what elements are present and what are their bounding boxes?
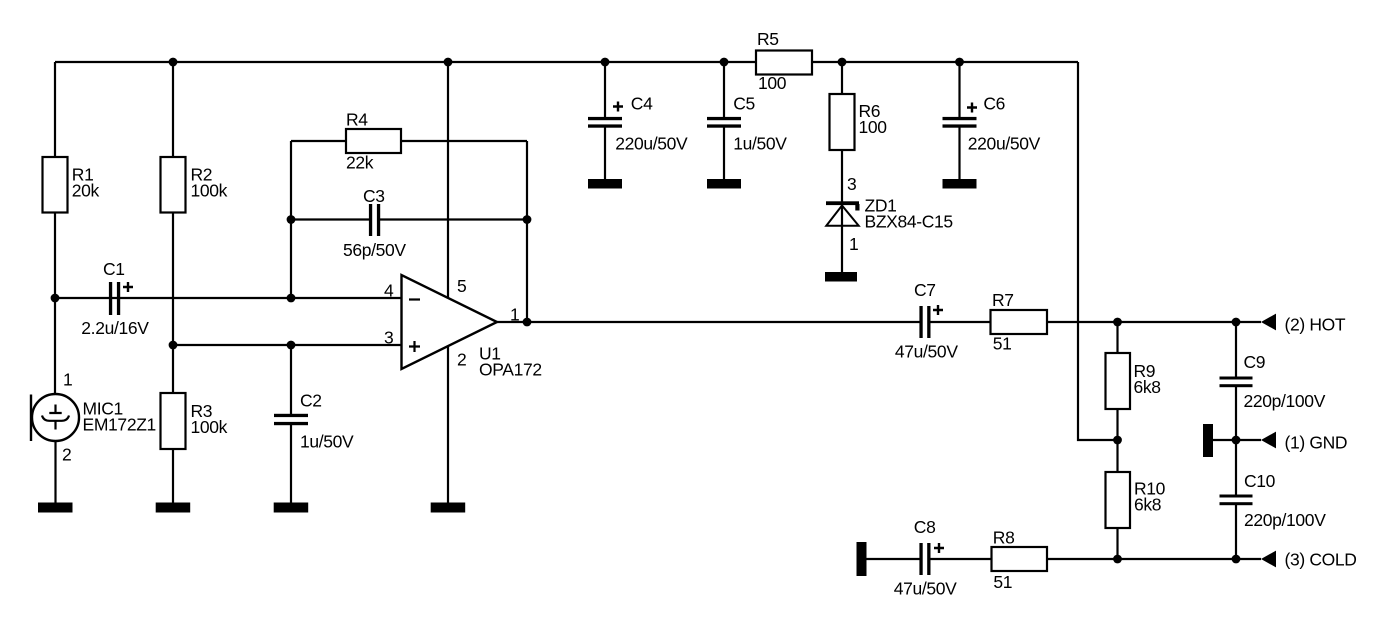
svg-text:51: 51: [993, 334, 1012, 354]
polarity mark + for C4: [613, 102, 623, 112]
resistor R10: [1106, 472, 1166, 528]
node junction COLD C10: [1232, 555, 1241, 564]
wire R10 bottom: [1116, 528, 1118, 559]
svg-text:(3) COLD: (3) COLD: [1285, 550, 1357, 570]
wire R1 bottom to node A: [54, 212, 56, 299]
polarity mark + for C7: [933, 305, 943, 315]
svg-text:6k8: 6k8: [1134, 495, 1161, 515]
svg-text:2: 2: [62, 445, 71, 465]
polarity mark + for C1: [123, 282, 133, 292]
resistor R2: [161, 157, 228, 213]
wire C2 top: [290, 345, 292, 414]
polarity mark + for C6: [967, 103, 977, 113]
wire C3 right: [380, 218, 527, 220]
node junction top rail C6: [955, 58, 964, 67]
wire C4 top: [604, 62, 606, 118]
resistor R1: [43, 157, 100, 213]
svg-text:56p/50V: 56p/50V: [343, 240, 406, 260]
ground tab C8: [857, 542, 867, 576]
svg-text:R4: R4: [346, 110, 368, 130]
wire node A to MIC1 pin1: [54, 298, 56, 394]
capacitor C4: [588, 93, 688, 153]
connector (3) COLD: [1261, 550, 1357, 570]
svg-text:C5: C5: [733, 93, 755, 113]
svg-text:3: 3: [384, 328, 393, 348]
wire C7 to R7: [931, 321, 991, 323]
node A junction R1/MIC1/C1: [51, 294, 60, 303]
wire R3 bottom to ground: [172, 449, 174, 503]
wire C8 to R8: [931, 558, 992, 560]
svg-text:47u/50V: 47u/50V: [894, 578, 957, 598]
wire R2 bottom to R3 top: [172, 212, 174, 393]
capacitor C9: [1220, 352, 1326, 411]
resistor R5: [756, 29, 812, 93]
capacitor C1: [81, 259, 149, 338]
wire feedback right column: [526, 141, 528, 322]
svg-text:R8: R8: [993, 528, 1015, 548]
wire R2 top: [172, 62, 174, 157]
svg-text:C6: C6: [983, 93, 1005, 113]
wire R6 top: [841, 62, 843, 94]
svg-text:1u/50V: 1u/50V: [300, 432, 354, 452]
wire C9 top: [1235, 322, 1237, 377]
wire R6 bottom to ZD1: [841, 150, 843, 202]
resistor R4: [346, 110, 401, 173]
ground C2: [274, 503, 309, 513]
node junction HOT R9: [1113, 318, 1122, 327]
wire U1 pin 2 drop to ground: [447, 346, 449, 503]
connector (2) HOT: [1261, 314, 1346, 335]
svg-text:6k8: 6k8: [1134, 377, 1161, 397]
wire U1 output to C7: [496, 321, 920, 323]
wire R1 top: [54, 62, 56, 157]
svg-text:1: 1: [63, 370, 72, 390]
svg-text:C4: C4: [631, 93, 653, 113]
svg-text:1: 1: [510, 305, 519, 325]
node junction C2 to non-inverting line: [287, 341, 296, 350]
node junction top rail C5: [720, 58, 729, 67]
node junction top rail U1 pin5: [444, 58, 453, 67]
wire C9 bottom to GND node: [1235, 387, 1237, 440]
node junction HOT C9: [1232, 318, 1241, 327]
svg-text:C1: C1: [103, 259, 125, 279]
ground tab GND connector: [1203, 424, 1213, 457]
svg-text:3: 3: [847, 174, 856, 194]
svg-text:220p/100V: 220p/100V: [1244, 391, 1326, 411]
ground R3: [156, 503, 191, 513]
ground ZD1: [825, 272, 857, 282]
svg-text:220p/100V: 220p/100V: [1244, 510, 1326, 530]
ground MIC1: [38, 503, 73, 513]
node junction top rail C4: [601, 58, 610, 67]
wire ZD1 anode to ground: [841, 204, 843, 273]
svg-text:22k: 22k: [346, 153, 374, 173]
node junction GND C9/C10: [1232, 436, 1241, 445]
wire R4 right: [401, 140, 527, 142]
svg-text:100: 100: [859, 117, 888, 137]
wire inverting input line (node A to pin 4): [55, 297, 402, 299]
svg-text:4: 4: [384, 281, 394, 301]
wire non-inverting input line (to pin 3): [173, 344, 402, 346]
svg-text:EM172Z1: EM172Z1: [83, 415, 156, 435]
node junction top rail R6: [838, 58, 847, 67]
resistor R8: [992, 528, 1048, 593]
svg-text:100k: 100k: [191, 180, 228, 200]
wire C4 bottom to ground: [604, 127, 606, 180]
wire R9 top: [1116, 322, 1118, 353]
svg-text:C7: C7: [914, 280, 936, 300]
wire C5 bottom to ground: [723, 127, 725, 180]
wire feedback left column: [290, 141, 292, 298]
capacitor C7: [895, 280, 958, 361]
node junction R2/R3 divider: [169, 341, 178, 350]
svg-text:R7: R7: [992, 290, 1014, 310]
node junction top rail R2: [169, 58, 178, 67]
resistor R6: [830, 94, 888, 150]
wire U1 pin 5 riser: [447, 62, 449, 300]
svg-text:(2) HOT: (2) HOT: [1285, 315, 1346, 335]
wire C5 top: [723, 62, 725, 118]
svg-text:BZX84-C15: BZX84-C15: [865, 212, 953, 232]
wire R8 to COLD: [1047, 558, 1261, 560]
svg-text:R5: R5: [757, 29, 779, 49]
svg-text:1: 1: [849, 234, 858, 254]
svg-text:47u/50V: 47u/50V: [895, 341, 958, 361]
node junction C3 right: [523, 215, 532, 224]
capacitor C2: [274, 391, 354, 452]
wire R7 to HOT: [1047, 321, 1261, 323]
wire C2 bottom to ground: [290, 425, 292, 503]
wire R9 to R10: [1116, 409, 1118, 472]
capacitor C3: [343, 186, 406, 260]
svg-text:5: 5: [457, 276, 466, 296]
svg-text:C2: C2: [300, 391, 322, 411]
svg-text:2: 2: [457, 350, 466, 370]
svg-text:100k: 100k: [191, 417, 228, 437]
capacitor C10: [1220, 471, 1327, 530]
svg-text:220u/50V: 220u/50V: [968, 133, 1041, 153]
capacitor C8: [894, 517, 957, 599]
svg-text:100: 100: [758, 73, 787, 93]
node junction U1 output feedback: [523, 318, 532, 327]
capacitor C5: [707, 93, 787, 153]
resistor R9: [1106, 353, 1161, 409]
node junction feedback to inverting input: [287, 294, 296, 303]
wire MIC1 pin2 to ground: [54, 441, 56, 503]
wire top rail V+: [55, 61, 1078, 63]
connector (1) GND: [1261, 432, 1347, 453]
resistor R3: [161, 393, 228, 449]
svg-text:C8: C8: [914, 517, 936, 537]
polarity mark + for C8: [934, 543, 944, 553]
wire C3 left: [291, 218, 369, 220]
svg-text:2.2u/16V: 2.2u/16V: [81, 318, 149, 338]
svg-text:1u/50V: 1u/50V: [733, 133, 787, 153]
node junction GND R9/R10: [1113, 436, 1122, 445]
wire C8 tab to C8: [866, 558, 920, 560]
ground U1 pin 2: [431, 503, 466, 513]
resistor R7: [991, 290, 1048, 354]
wire C6 top: [958, 62, 960, 118]
svg-text:C10: C10: [1244, 471, 1276, 491]
wire R4 left: [291, 140, 346, 142]
op-amp U1: [384, 275, 542, 380]
node junction COLD R10: [1113, 555, 1122, 564]
wire right drop from rail: [1078, 62, 1118, 440]
svg-text:OPA172: OPA172: [479, 360, 542, 380]
svg-text:(1) GND: (1) GND: [1285, 433, 1348, 453]
zener diode ZD1: [826, 174, 953, 254]
svg-text:20k: 20k: [72, 180, 100, 200]
svg-text:51: 51: [993, 572, 1012, 592]
svg-text:C9: C9: [1244, 352, 1266, 372]
svg-text:C3: C3: [363, 186, 385, 206]
wire C10 bottom to COLD: [1235, 505, 1237, 559]
ground C4: [588, 179, 622, 189]
capacitor C6: [943, 93, 1041, 153]
wire C6 bottom to ground: [958, 127, 960, 180]
wire GND node to C10: [1235, 440, 1237, 495]
microphone MIC1: [31, 370, 156, 465]
svg-text:220u/50V: 220u/50V: [615, 133, 688, 153]
ground C6: [943, 179, 977, 189]
wire GND tab to GND connector: [1212, 439, 1261, 441]
node junction C3 left: [287, 215, 296, 224]
ground C5: [707, 179, 741, 189]
